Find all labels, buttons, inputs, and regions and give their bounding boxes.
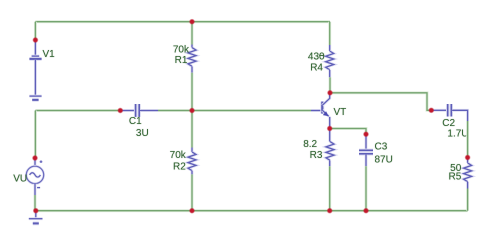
wire R4 bottom to collector [329,77,332,93]
wire C2 to R5 [466,121,469,158]
svg-text:V1: V1 [43,49,56,60]
wire VU bottom [34,195,37,211]
svg-text:R4: R4 [310,62,323,73]
node VU top [32,155,38,161]
svg-text:1.7U: 1.7U [447,128,468,139]
svg-text:3U: 3U [136,128,149,139]
node C3 top [363,131,369,137]
node C3 bottom [363,208,369,214]
svg-text:8.2: 8.2 [303,139,317,150]
wire collector net [330,93,431,111]
svg-text:R1: R1 [175,55,188,66]
capacitor C1 [120,104,158,117]
resistor R5 [464,158,472,189]
svg-text:C1: C1 [129,116,142,127]
wire C3 bottom [365,166,368,211]
transistor VT [311,93,330,129]
capacitor C2 [431,104,467,121]
resistor R2 [188,148,196,175]
resistor R3 [326,129,334,167]
node V1 plus [32,37,38,43]
node bottom left junction [33,208,39,214]
svg-text:70k: 70k [173,45,190,56]
wire R1 top drop [191,22,194,45]
wire emitter net [330,129,366,135]
wire middle net left [35,109,120,112]
node C2 left terminal [428,107,434,113]
wire top net [35,20,330,23]
svg-text:VT: VT [334,107,347,118]
svg-text:R3: R3 [310,150,323,161]
wire R1 bottom to middle net [191,73,194,111]
node R2 bottom [189,208,195,214]
ground of V1 [29,96,41,100]
node collector [327,90,333,96]
wire middle net right of C1 [158,109,311,112]
wire R5 bottom [466,189,469,211]
resistor R4 [326,45,334,77]
wire R2 top [191,111,194,148]
svg-text:R2: R2 [173,161,186,172]
capacitor C3 [359,134,373,166]
node R5 top [465,154,471,160]
svg-text:430: 430 [308,52,325,63]
node emitter [327,125,333,131]
label R4 value 430 [308,52,325,63]
wire middle net left vertical [34,111,37,159]
node middle junction [189,107,195,113]
ground [29,211,43,224]
wire bottom net [36,209,468,212]
wire R4 top drop [328,22,331,45]
node R3 bottom [327,208,333,214]
wire R3 bottom [328,166,331,210]
battery V1 [29,40,41,95]
svg-text:R5: R5 [449,171,462,182]
node R1 top junction [189,19,195,25]
svg-text:VU: VU [13,173,27,184]
node C1 left terminal [117,107,123,113]
wire V1 top drop [34,22,37,40]
svg-text:70k: 70k [170,150,187,161]
wire R2 bottom [191,174,194,210]
svg-text:87U: 87U [375,154,393,165]
voltage source VU [26,158,43,195]
svg-text:C3: C3 [375,142,388,153]
resistor R1 [188,45,196,73]
